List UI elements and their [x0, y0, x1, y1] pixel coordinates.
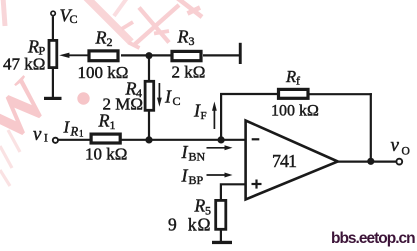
ground bar at R3 end [239, 43, 242, 64]
value 47 kOhm [3, 55, 45, 74]
svg-text:bbs.eetop.cn: bbs.eetop.cn [331, 230, 415, 247]
current arrow IBP [207, 173, 233, 178]
feedback top wire right [308, 93, 372, 95]
value 9 kOhm [168, 215, 211, 235]
svg-text:I: I [44, 133, 48, 145]
wire RP to ground [52, 68, 54, 98]
wiper arrow of RP [59, 53, 88, 58]
wire VC to RP [52, 16, 54, 40]
value 2 MOhm [103, 95, 144, 114]
label IF [193, 101, 207, 123]
svg-text:I: I [181, 142, 189, 162]
label R3 [177, 27, 195, 49]
current arrow IC [157, 83, 162, 107]
svg-text:f: f [296, 74, 300, 88]
svg-text:R: R [27, 37, 39, 57]
watermark fragment top right [176, 0, 202, 17]
op-amp U1 741 [246, 121, 338, 200]
resistor R5 [216, 200, 226, 229]
feedback top wire left [220, 93, 278, 95]
svg-text:O: O [402, 146, 410, 158]
svg-text:100 kΩ: 100 kΩ [78, 63, 129, 82]
resistor R4 [145, 81, 154, 110]
svg-text:R: R [177, 27, 189, 47]
svg-text:3: 3 [189, 34, 195, 48]
wire v1 to R1 [58, 139, 91, 141]
svg-text:I: I [63, 118, 71, 137]
ground of RP [44, 97, 62, 100]
svg-text:v: v [33, 124, 42, 145]
node C junction [218, 136, 225, 143]
svg-text:9 kΩ: 9 kΩ [168, 215, 211, 235]
label v1 [33, 124, 48, 145]
svg-text:C: C [70, 12, 78, 26]
svg-text:2 kΩ: 2 kΩ [172, 63, 206, 82]
svg-text:741: 741 [272, 151, 296, 171]
watermark letter W [0, 65, 63, 157]
feedback drop wire [370, 93, 372, 162]
label R4 [125, 78, 143, 100]
resistor R2 [89, 51, 118, 61]
label IBP [181, 166, 204, 188]
label IC [164, 87, 181, 109]
svg-text:R: R [95, 27, 107, 47]
svg-text:R: R [98, 111, 110, 131]
node D junction [367, 158, 374, 165]
resistor R3 [172, 51, 201, 60]
label IR1 [63, 118, 84, 139]
label RP [27, 37, 46, 58]
resistor RP (potentiometer) [49, 40, 57, 67]
wire R4 to node B [148, 111, 150, 140]
svg-text:I: I [164, 87, 172, 107]
watermark heavy band [85, 0, 131, 42]
watermark stroke left edge top [3, 0, 5, 26]
wire node A down to R4 [148, 55, 150, 81]
terminal v1 [53, 138, 58, 143]
svg-text:F: F [201, 110, 207, 122]
watermark X serifs [122, 22, 170, 48]
ground of R5 [212, 241, 232, 244]
terminal vO [396, 159, 402, 165]
value 100 kOhm (Rf) [271, 103, 319, 120]
resistor Rf [279, 89, 309, 98]
watermark small V stroke over band [114, 0, 127, 16]
label Rf [285, 67, 300, 88]
svg-text:2: 2 [107, 35, 113, 49]
svg-text:47 kΩ: 47 kΩ [3, 55, 45, 74]
svg-text:v: v [391, 135, 400, 156]
svg-text:R: R [70, 125, 79, 139]
watermark faint strokes [0, 130, 20, 186]
feedback riser wire [220, 93, 222, 140]
svg-text:1: 1 [79, 129, 84, 139]
label vO [391, 135, 410, 158]
resistor R1 [91, 134, 120, 143]
label R5 [194, 196, 212, 218]
label R1 [98, 111, 116, 132]
svg-text:BP: BP [189, 173, 204, 187]
wire R2 to node A to R3 [121, 54, 171, 56]
value 2 kOhm [172, 63, 206, 82]
node B junction [145, 136, 152, 143]
value 100 kOhm [78, 63, 129, 82]
svg-text:R: R [285, 67, 296, 86]
label VC [60, 6, 78, 27]
wire R5 to ground [220, 230, 222, 242]
wire R3 to end bar [203, 54, 239, 56]
current arrow IBN [207, 145, 233, 150]
value 10 kOhm [85, 145, 127, 164]
watermark letter X strokes [134, 5, 179, 45]
output wire [338, 161, 398, 163]
watermark dot [77, 92, 89, 104]
svg-text:C: C [173, 94, 181, 108]
node A junction [146, 52, 153, 59]
wire noninverting input [221, 184, 245, 199]
svg-text:10 kΩ: 10 kΩ [85, 145, 127, 164]
label R2 [95, 27, 113, 49]
svg-text:1: 1 [110, 118, 116, 132]
terminal VC [51, 11, 55, 15]
svg-text:R: R [194, 196, 206, 216]
label IBN [181, 142, 206, 164]
svg-text:100 kΩ: 100 kΩ [271, 103, 319, 120]
current arrow IF [212, 102, 217, 130]
svg-text:I: I [181, 166, 189, 186]
site watermark bbs.eetop.cn [331, 230, 415, 247]
wire R1 to op-amp inverting input [122, 139, 246, 141]
svg-text:BN: BN [189, 150, 206, 164]
